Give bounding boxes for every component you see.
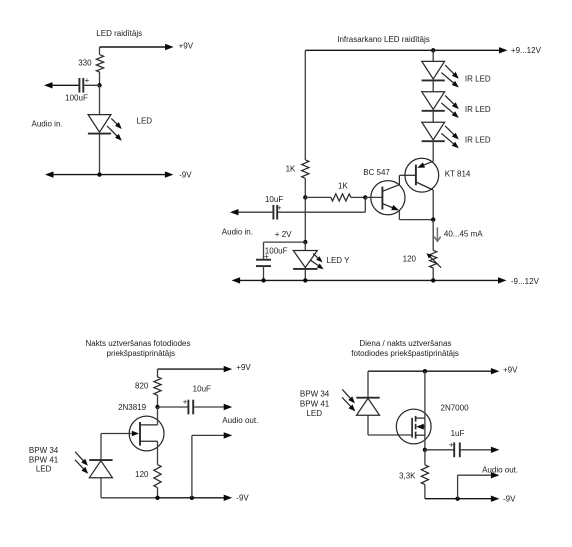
wire Q1 emitter down to node F <box>399 210 433 219</box>
LED D1 emission arrows <box>107 118 122 140</box>
wire node D to 1K horizontal <box>305 196 331 198</box>
wire cap to audio out arrow (C3) <box>193 404 232 410</box>
wire 1K to node D <box>304 178 306 197</box>
node E junction <box>363 195 367 199</box>
resistor 120 (C3) <box>154 465 161 488</box>
LED D1 <box>88 115 111 134</box>
wire Q2 collector to node F <box>432 190 434 220</box>
capacitor 100uF (C1) <box>79 78 83 93</box>
label BPW 34 (C4) <box>300 390 330 399</box>
svg-text:BPW 34: BPW 34 <box>29 446 59 455</box>
wire LED to -9V rail <box>99 134 101 175</box>
svg-text:fotodiodes priekšpastiprinātāj: fotodiodes priekšpastiprinātājs <box>351 349 459 358</box>
wire Q4 drain to +rail <box>424 371 426 418</box>
node L junction <box>155 496 159 500</box>
node O junction <box>423 448 427 452</box>
node I junction <box>261 278 265 282</box>
svg-text:+9V: +9V <box>503 365 518 374</box>
wire Q3 drain to node K <box>157 407 159 425</box>
label 2N3819 <box>118 403 147 412</box>
svg-text:+9...12V: +9...12V <box>511 46 542 55</box>
label 40...45 mA <box>444 230 483 239</box>
wire node H to LED Y <box>304 242 306 250</box>
wire Q4 internal vertical <box>424 418 426 435</box>
node H +2V junction <box>303 240 307 244</box>
transistor Q1 BC547 NPN <box>371 175 405 214</box>
svg-text:3,3K: 3,3K <box>399 471 416 480</box>
svg-text:330: 330 <box>78 59 92 68</box>
svg-text:10uF: 10uF <box>193 384 211 393</box>
net +9V rail (C1) <box>100 44 174 50</box>
net -9V rail (C1) <box>45 171 173 177</box>
svg-text:-9V: -9V <box>179 170 192 179</box>
net +9...12V rail <box>305 47 507 53</box>
svg-text:40...45 mA: 40...45 mA <box>444 230 483 239</box>
label 3,3K <box>399 471 416 480</box>
node D junction <box>303 195 307 199</box>
svg-text:BPW 34: BPW 34 <box>300 390 330 399</box>
label LED <box>137 116 153 125</box>
svg-text:+9V: +9V <box>179 41 194 50</box>
label BPW 41 (C4) <box>300 399 330 408</box>
label + 2V <box>275 230 292 239</box>
photodiode D6 light arrows <box>75 452 88 474</box>
svg-text:120: 120 <box>135 470 149 479</box>
svg-text:LED: LED <box>137 116 153 125</box>
IR LED D2 emission arrows <box>441 65 458 87</box>
label Audio out. (C3) <box>222 416 258 425</box>
node J junction <box>303 278 307 282</box>
resistor 820 <box>154 377 161 395</box>
wire node H to bypass cap <box>264 242 306 260</box>
label + polarity (C1 cap) <box>85 76 90 85</box>
wire +rail corner down left branch <box>304 50 306 160</box>
node M junction <box>190 496 194 500</box>
svg-text:120: 120 <box>403 255 417 264</box>
label BPW 34 (C3) <box>29 446 59 455</box>
node K junction <box>155 405 159 409</box>
wire rail to R820 <box>157 369 159 377</box>
wire rail to IR LED1 <box>432 50 434 61</box>
capacitor 100uF (C2) <box>256 260 271 266</box>
wire 1K to node E <box>351 196 365 198</box>
svg-text:BC 547: BC 547 <box>363 168 390 177</box>
net +9V rail (C4) <box>368 368 499 374</box>
label IR LED 1 <box>465 74 491 83</box>
label + polarity (10uF C3) <box>183 398 188 407</box>
wire D3 to D4 <box>432 111 434 122</box>
label Audio in. (C1) <box>32 120 63 129</box>
svg-text:IR LED: IR LED <box>465 135 491 144</box>
capacitor 10uF (C2) <box>273 205 277 220</box>
wire Q4 source to node O <box>424 435 426 450</box>
svg-text:+: + <box>183 398 188 407</box>
svg-text:LED Y: LED Y <box>327 256 351 265</box>
photodiode D7 BPW <box>356 398 379 416</box>
title circuit 3 line 1 <box>86 339 191 348</box>
label 2N7000 <box>441 404 470 413</box>
svg-text:+: + <box>449 441 454 450</box>
label -9V (C4) <box>503 495 516 504</box>
current annotation arrow 40...45 mA <box>434 227 441 241</box>
svg-text:Audio in.: Audio in. <box>222 228 253 237</box>
label IR LED 3 <box>465 135 491 144</box>
svg-text:-9V: -9V <box>236 494 249 503</box>
wire audio out lower branch (C4) <box>458 472 500 499</box>
wire audio out lower branch (C3) <box>192 432 232 498</box>
IR LED D3 emission arrows <box>441 96 458 118</box>
wire rail to resistor R330 <box>99 47 101 55</box>
label + polarity (1uF) <box>449 441 454 450</box>
net -9...12V rail <box>232 277 507 283</box>
wire R820 to node K <box>157 395 159 407</box>
label +9V (C3) <box>236 363 251 372</box>
svg-text:+9V: +9V <box>236 363 251 372</box>
label KT 814 <box>445 170 471 179</box>
svg-text:+: + <box>277 203 282 212</box>
wire node F to rheostat <box>432 220 434 251</box>
svg-text:BPW 41: BPW 41 <box>300 399 330 408</box>
label + polarity (100uF C2) <box>264 252 269 261</box>
wire rail corner to photodiode (C4) <box>367 371 369 398</box>
label +9V (C4) <box>503 365 518 374</box>
svg-text:priekšpastiprinātājs: priekšpastiprinātājs <box>107 349 175 358</box>
label -9...12V <box>511 277 540 286</box>
label IR LED 2 <box>465 105 491 114</box>
label 100uF (C2) <box>265 247 288 256</box>
wire node E down to coupling cap <box>277 197 365 212</box>
label +9...12V <box>511 46 542 55</box>
label LED (C3) <box>36 465 52 474</box>
label + polarity (10uF C2) <box>277 203 282 212</box>
svg-text:LED raidītājs: LED raidītājs <box>96 29 142 38</box>
svg-text:1K: 1K <box>338 182 348 191</box>
label 100uF (C1) <box>65 93 88 102</box>
wire node O to R3.3K <box>424 450 426 465</box>
title circuit 4 line 2 <box>351 349 459 358</box>
wire node D to node H segment <box>304 197 306 242</box>
label 10uF (C3) <box>193 384 211 393</box>
svg-text:2N7000: 2N7000 <box>441 404 470 413</box>
svg-text:820: 820 <box>135 381 149 390</box>
wire R120 to -rail <box>157 488 159 498</box>
label 120 (C3) <box>135 470 149 479</box>
svg-text:+: + <box>264 252 269 261</box>
rheostat 120 <box>426 250 441 268</box>
node N junction <box>423 369 427 373</box>
svg-text:+ 2V: + 2V <box>275 230 292 239</box>
wire photodiode to gate (C4) <box>368 415 412 435</box>
wire Q3 source to R120 <box>157 441 159 464</box>
label Audio out. (C4) <box>482 465 518 474</box>
node F junction <box>431 217 435 221</box>
wire LED Y to -rail <box>304 269 306 280</box>
title circuit 2: Infrasarkano LED raiditajs <box>337 35 430 44</box>
node A junction <box>97 83 101 87</box>
photodiode D7 light arrows <box>342 389 355 411</box>
resistor 1K vertical <box>302 160 309 178</box>
node G junction on -rail <box>431 278 435 282</box>
wire node K to output cap <box>158 406 189 408</box>
resistor 3,3K <box>421 465 428 485</box>
LED D5 emission arrows <box>310 254 324 270</box>
label 820 <box>135 381 149 390</box>
label 10uF (C2) <box>265 195 283 204</box>
IR LED D4 emission arrows <box>441 126 458 148</box>
label LED Y <box>327 256 351 265</box>
svg-text:-9...12V: -9...12V <box>511 277 540 286</box>
IR LED D4 <box>422 122 445 141</box>
wire node A to LED <box>99 85 101 114</box>
LED D5 yellow <box>293 251 317 269</box>
wire photodiode to -rail corner <box>101 478 158 498</box>
svg-text:2N3819: 2N3819 <box>118 403 147 412</box>
wire rheostat to -rail <box>432 268 434 280</box>
svg-text:Audio out.: Audio out. <box>222 416 258 425</box>
svg-text:Audio in.: Audio in. <box>32 120 63 129</box>
label BPW 41 (C3) <box>29 456 59 465</box>
capacitor 1uF <box>454 442 460 457</box>
label +9V (C1) <box>179 41 194 50</box>
label 1K horizontal <box>338 182 348 191</box>
net -9V rail (C3) <box>158 495 233 501</box>
wire R330 to node A <box>99 72 101 85</box>
wire cap to audio out arrow (C4) <box>460 447 500 453</box>
title circuit 1: LED raiditajs <box>96 29 142 38</box>
svg-text:Audio out.: Audio out. <box>482 465 518 474</box>
svg-text:IR LED: IR LED <box>465 74 491 83</box>
node B junction <box>97 172 101 176</box>
svg-text:1uF: 1uF <box>451 429 465 438</box>
capacitor 10uF (C3) <box>188 400 193 415</box>
wire D2 to D3 <box>432 80 434 91</box>
svg-text:100uF: 100uF <box>65 93 88 102</box>
svg-text:IR LED: IR LED <box>465 105 491 114</box>
wire audio-in left arm (C2) <box>230 209 273 215</box>
resistor 1K horizontal <box>331 194 351 201</box>
svg-text:Nakts uztveršanas fotodiodes: Nakts uztveršanas fotodiodes <box>86 339 191 348</box>
transistor Q4 2N7000 MOSFET <box>396 409 431 444</box>
svg-text:+: + <box>85 76 90 85</box>
node C junction on +rail <box>431 48 435 52</box>
svg-text:-9V: -9V <box>503 495 516 504</box>
svg-text:Diena / nakts uztveršanas: Diena / nakts uztveršanas <box>359 339 451 348</box>
svg-text:Infrasarkano LED raidītājs: Infrasarkano LED raidītājs <box>337 35 430 44</box>
label 1K vertical <box>286 165 296 174</box>
title circuit 3 line 2 <box>107 349 175 358</box>
svg-text:1K: 1K <box>286 165 296 174</box>
IR LED D3 <box>422 92 445 111</box>
photodiode D6 BPW <box>89 460 112 478</box>
wire audio-in left arm <box>44 82 79 88</box>
wire D4 to Q2 emitter <box>432 141 434 161</box>
wire bypass cap to -rail <box>263 266 265 280</box>
net +9V rail (C3) <box>158 366 233 372</box>
transistor Q2 KT814 PNP <box>405 158 439 192</box>
svg-text:BPW 41: BPW 41 <box>29 456 59 465</box>
label BC 547 <box>363 168 390 177</box>
label 120 (C2) <box>403 255 417 264</box>
label Audio in. (C2) <box>222 228 253 237</box>
wire node O to output cap (C4) <box>425 449 454 451</box>
label -9V (C3) <box>236 494 249 503</box>
label 330 <box>78 59 92 68</box>
wire gate to photodiode <box>100 434 102 461</box>
svg-text:LED: LED <box>36 465 52 474</box>
IR LED D2 <box>422 61 445 80</box>
svg-text:10uF: 10uF <box>265 195 283 204</box>
svg-text:LED: LED <box>306 409 322 418</box>
transistor Q3 2N3819 JFET <box>101 416 164 451</box>
svg-text:KT 814: KT 814 <box>445 170 471 179</box>
label 1uF <box>451 429 465 438</box>
label LED (C4) <box>306 409 322 418</box>
wire cap to node A <box>83 84 99 86</box>
resistor 330 <box>96 55 103 73</box>
node P junction <box>455 497 459 501</box>
title circuit 4 line 1 <box>359 339 451 348</box>
net -9V rail (C4) <box>425 496 500 502</box>
wire Q1 collector to Q2 base <box>399 174 416 176</box>
label -9V (C1) <box>179 170 192 179</box>
wire node E to Q1 base <box>365 196 382 198</box>
wire R3.3K to -rail <box>424 485 426 499</box>
